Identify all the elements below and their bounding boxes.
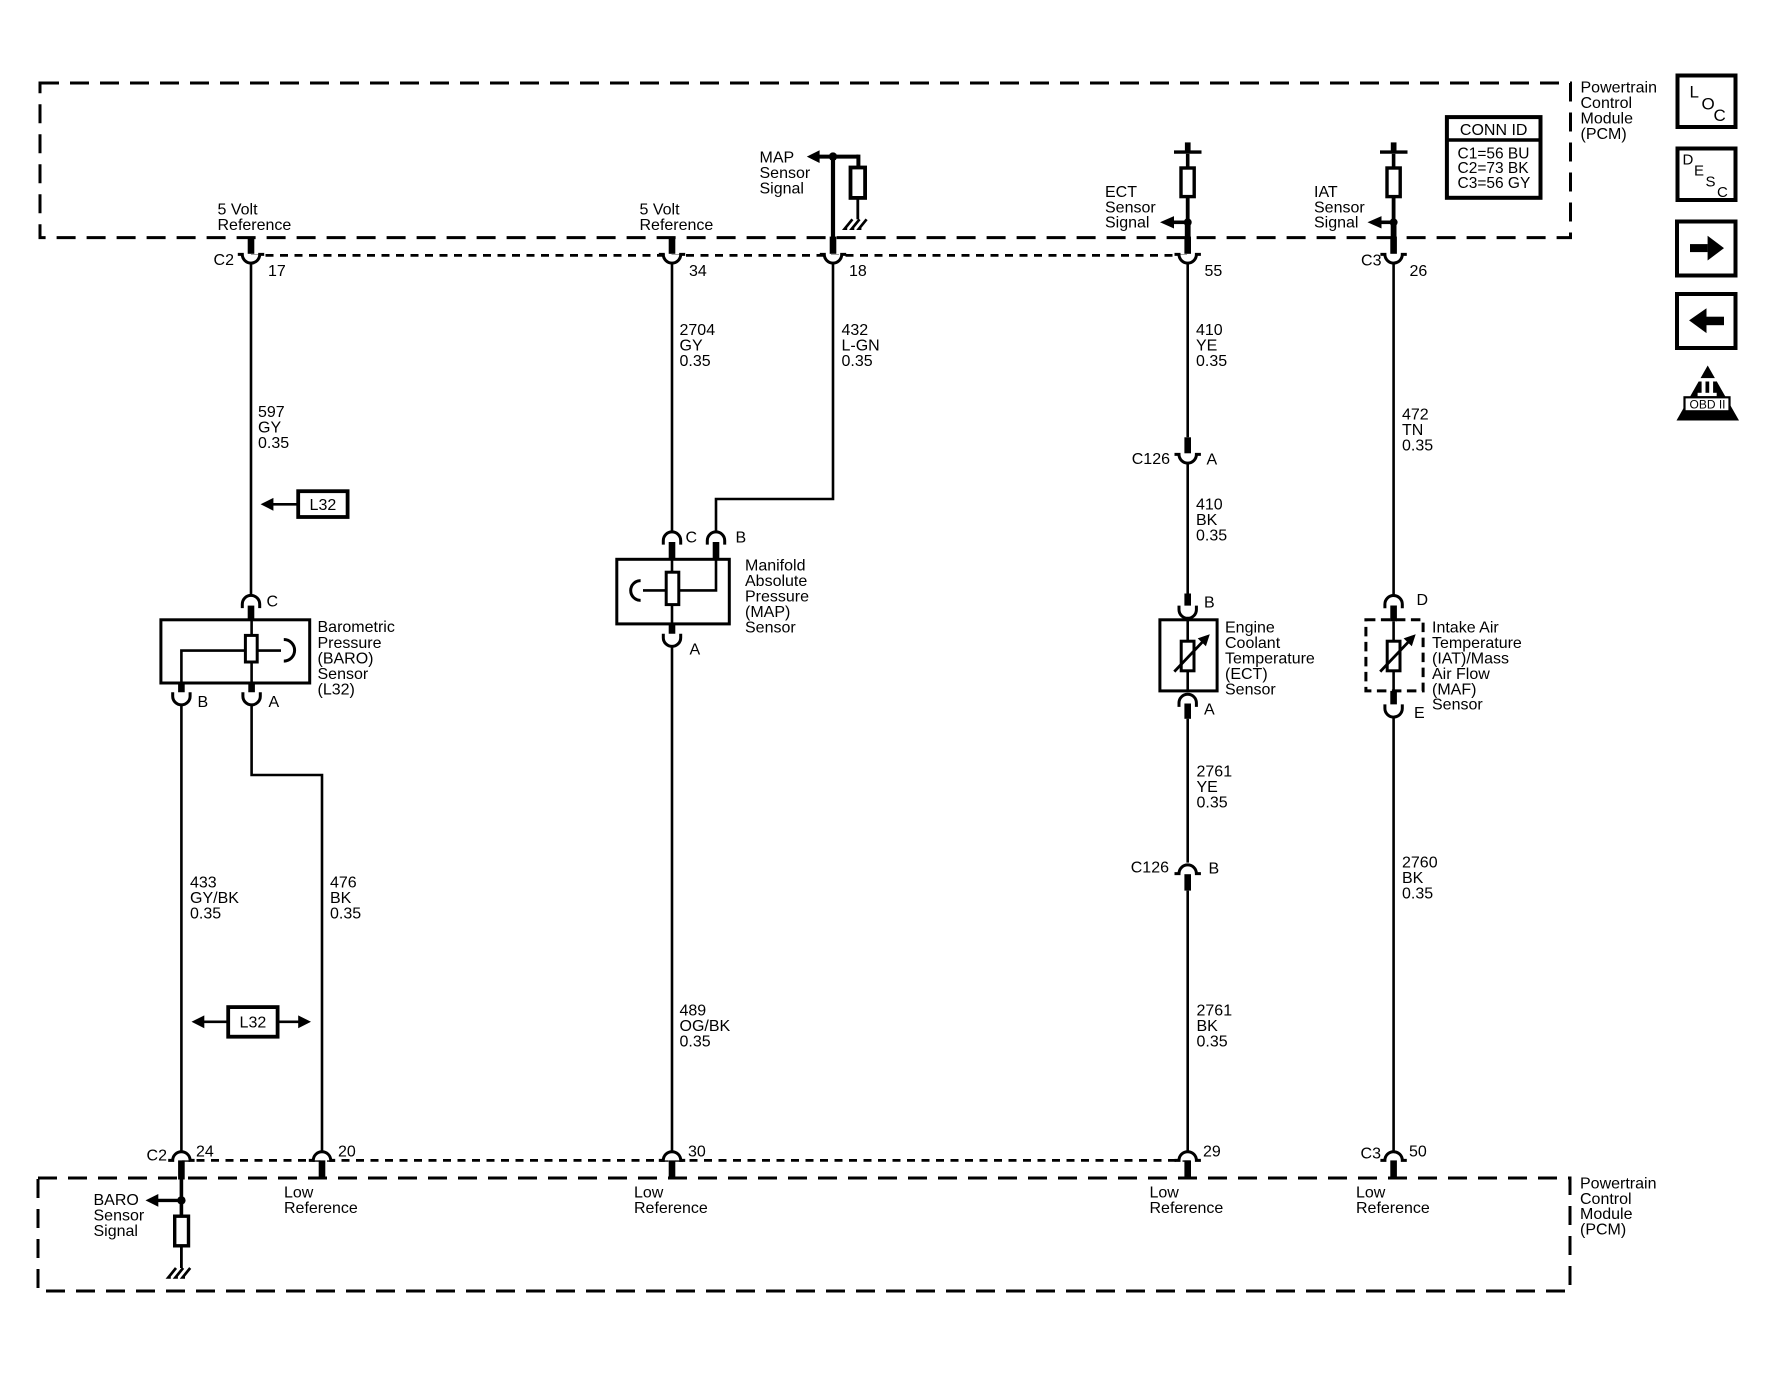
connector cup pin 30 (659, 1152, 685, 1161)
wire 410 YE (pin 55 to C126 A) (1186, 264, 1189, 438)
arrowhead MAP sensor signal (points left) (807, 150, 820, 163)
svg-text:24: 24 (196, 1144, 214, 1161)
resistor PCM IAT pull-up (1387, 168, 1400, 197)
connector cup pin 50 (1380, 1152, 1406, 1161)
connector cup BARO pin B (173, 692, 190, 705)
wire 433 GY/BK (BARO B to pin 24) (180, 705, 183, 1152)
icon forward arrow box (1677, 222, 1736, 276)
label Powertrain Control Module (PCM) top (1581, 80, 1657, 143)
svg-text:A: A (1204, 701, 1215, 718)
wire to PCM pull-up resistor (MAP) (856, 155, 860, 168)
connector face line C2 (bottom, dotted) (182, 1159, 1190, 1162)
pin stub PCM pin 29 (1184, 1160, 1191, 1179)
thermistor IAT (variable resistor) (1387, 641, 1400, 671)
svg-text:Signal: Signal (1105, 215, 1149, 232)
wire L32 callout right (278, 1020, 299, 1023)
wire 432 L-GN (pin 18 to MAP B) (716, 264, 833, 532)
connector cup BARO pin C (242, 595, 259, 608)
svg-text:L32: L32 (240, 1015, 267, 1032)
junction ECT signal node (1184, 218, 1192, 226)
intake air temperature / MAF sensor box (dashed) (1366, 620, 1423, 691)
pressure port symbol (MAP) (631, 581, 641, 601)
svg-text:0.35: 0.35 (842, 353, 873, 370)
wire ECT internal pin B to thermistor (1186, 619, 1189, 642)
arrowhead L32 callout (261, 498, 274, 511)
wire MAP internal pin B to resistor (679, 561, 716, 591)
label 5 Volt Reference (pin 34) (640, 202, 714, 234)
svg-text:0.35: 0.35 (190, 906, 221, 923)
svg-text:C: C (1717, 184, 1728, 201)
svg-text:55: 55 (1205, 263, 1223, 280)
wire label 410 BK 0.35 (1196, 497, 1227, 545)
pin stub PCM pin 55 (1184, 237, 1191, 254)
svg-text:L32: L32 (310, 497, 337, 514)
svg-text:17: 17 (268, 263, 286, 280)
connector cup MAP pin B (707, 532, 724, 545)
wire resistor to pin 26 (1392, 197, 1396, 238)
svg-text:C2: C2 (214, 252, 235, 269)
connector cup IAT pin D (1385, 596, 1402, 609)
wire 472 TN (pin 26 to IAT D) (1392, 264, 1395, 596)
svg-text:0.35: 0.35 (1196, 528, 1227, 545)
wire L32 callout left (204, 1020, 228, 1023)
svg-text:Signal: Signal (94, 1223, 138, 1240)
svg-text:Sensor: Sensor (318, 666, 369, 683)
svg-text:C126: C126 (1131, 860, 1169, 877)
T-bar supply (ECT branch) (1174, 142, 1202, 152)
pin stub MAP pin A (669, 624, 676, 636)
svg-text:0.35: 0.35 (258, 435, 289, 452)
svg-text:Reference: Reference (1150, 1200, 1224, 1217)
pin stub PCM pin 34 (669, 237, 676, 254)
svg-text:29: 29 (1203, 1144, 1221, 1161)
label 5 Volt Reference (pin 17) (218, 202, 292, 234)
wire IAT internal thermistor to pin E (1392, 671, 1395, 691)
wire resistor to ground (BARO) (180, 1246, 183, 1268)
svg-text:B: B (1204, 594, 1215, 611)
connector cup pin 34 (659, 254, 685, 263)
svg-text:C126: C126 (1132, 451, 1170, 468)
manifold absolute pressure sensor box (617, 559, 730, 624)
pin stub C126 pin A (1184, 437, 1191, 453)
wire T-bar to resistor (IAT) (1392, 154, 1396, 168)
wire IAT internal pin D to thermistor (1392, 621, 1395, 641)
svg-text:A: A (1207, 452, 1218, 469)
wire MAP signal horizontal (818, 155, 858, 159)
L32 callout box (298, 491, 347, 517)
pressure port symbol (BARO) (284, 640, 295, 662)
svg-text:B: B (198, 694, 209, 711)
icon OBD II triangle (1677, 366, 1740, 421)
svg-text:E: E (1694, 163, 1704, 180)
pin stub IAT pin D (1390, 606, 1397, 622)
wire 2760 BK (IAT E to pin 50) (1392, 717, 1395, 1152)
pin stub PCM pin 20 (319, 1160, 326, 1179)
wire 489 OG/BK (MAP A to pin 30) (671, 646, 674, 1152)
pin stub PCM pin 24 (178, 1160, 185, 1179)
svg-text:C: C (1714, 106, 1726, 125)
svg-text:B: B (1209, 861, 1220, 878)
svg-text:Reference: Reference (1356, 1200, 1430, 1217)
label IAT Sensor Signal (1314, 184, 1365, 232)
connector cup MAP pin A (663, 634, 680, 647)
connector cup pin 29 (1175, 1152, 1201, 1161)
wire label 489 OG/BK 0.35 (680, 1003, 731, 1051)
thermistor ECT (variable resistor) (1181, 641, 1194, 671)
ground (PCM internal, BARO branch) (168, 1268, 190, 1277)
pin stub IAT signal through PCM edge (1391, 225, 1397, 240)
pin stub ECT signal through PCM edge (1185, 225, 1191, 240)
wire 410 BK (C126 A to ECT B) (1186, 464, 1189, 594)
resistor PCM ECT pull-up (1181, 168, 1194, 197)
svg-text:50: 50 (1409, 1144, 1427, 1161)
wire IAT signal to arrow (1380, 221, 1394, 225)
connector cup pin 17 (238, 254, 264, 263)
label Intake Air Temperature (IAT)/Mass Air Flow (MAF) Sensor (1432, 620, 1522, 714)
wire MAP internal port to resistor (643, 589, 666, 592)
connector cup pin 26 (1380, 254, 1406, 263)
icon back arrow box (1677, 294, 1736, 348)
svg-text:CONN ID: CONN ID (1460, 122, 1528, 139)
barometric pressure sensor B52/L32 box (161, 620, 310, 683)
wire label 2761 YE 0.35 (1197, 764, 1233, 812)
svg-text:B: B (736, 529, 747, 546)
svg-text:S: S (1706, 173, 1716, 190)
svg-text:26: 26 (1410, 263, 1428, 280)
svg-text:Reference: Reference (640, 217, 714, 234)
svg-text:Reference: Reference (284, 1200, 358, 1217)
wire resistor to pin 55 (1186, 197, 1190, 238)
connector cup pin 55 (1175, 254, 1201, 263)
connector cup pin 18 (820, 254, 846, 263)
connector cup ECT pin A (1179, 694, 1196, 707)
variable-resistor arrow (IAT) (1380, 634, 1416, 671)
arrowhead IAT sensor signal (points left) (1368, 216, 1382, 228)
svg-text:0.35: 0.35 (680, 353, 711, 370)
label Low Reference (634, 1185, 708, 1217)
label Low Reference (1150, 1185, 1224, 1217)
svg-text:Reference: Reference (218, 217, 292, 234)
wire 476 BK (BARO A to pin 20) (252, 705, 322, 1152)
svg-text:E: E (1414, 705, 1425, 722)
wire label 2704 GY 0.35 (680, 322, 716, 370)
svg-text:Barometric: Barometric (318, 619, 395, 636)
svg-text:(L32): (L32) (318, 682, 355, 699)
L32 callout box (lower) (228, 1007, 277, 1037)
svg-text:0.35: 0.35 (1196, 353, 1227, 370)
wire MAP internal pin C to resistor (671, 561, 674, 573)
icon DESC box (1678, 149, 1736, 202)
svg-text:A: A (269, 694, 280, 711)
connector cup IAT pin E (1385, 704, 1402, 717)
svg-text:C3: C3 (1361, 252, 1382, 269)
PCM module box (bottom) (38, 1178, 1570, 1291)
wire label 2761 BK 0.35 (1197, 1003, 1233, 1051)
engine coolant temperature sensor box (1160, 620, 1217, 691)
wire BARO signal to arrow (158, 1199, 182, 1202)
svg-text:Sensor: Sensor (1432, 697, 1483, 714)
pin stub PCM pin 30 (669, 1160, 676, 1179)
arrowhead L32 callout left (points left) (192, 1015, 205, 1028)
wire 2761 YE (ECT A to C126 B) (1186, 719, 1189, 863)
svg-text:D: D (1683, 152, 1694, 169)
wire label 433 GY/BK 0.35 (190, 875, 239, 923)
svg-text:30: 30 (688, 1144, 706, 1161)
arrowhead L32 callout right (points right) (298, 1015, 311, 1028)
svg-text:C3=56 GY: C3=56 GY (1458, 175, 1531, 192)
connector cup ECT pin B (1179, 606, 1196, 619)
wire BARO internal resistor to pin B (181, 651, 245, 683)
connector cup pin 20 (309, 1152, 335, 1161)
svg-text:Pressure: Pressure (318, 635, 382, 652)
svg-text:18: 18 (849, 263, 867, 280)
svg-text:C3: C3 (1361, 1145, 1382, 1162)
labels C1=56 BU / C2=73 BK / C3=56 GY (1458, 145, 1531, 192)
svg-text:0.35: 0.35 (1197, 1034, 1228, 1051)
wire BARO internal resistor to port (257, 649, 281, 652)
wire T-bar to resistor (ECT) (1186, 154, 1190, 168)
svg-text:34: 34 (689, 263, 707, 280)
svg-text:0.35: 0.35 (330, 906, 361, 923)
wire 2761 BK (C126 B to pin 29) (1186, 891, 1189, 1152)
svg-text:(PCM): (PCM) (1580, 1222, 1626, 1239)
svg-text:D: D (1417, 592, 1429, 609)
connector cup pin 24 (168, 1152, 194, 1161)
variable-resistor arrow (ECT) (1174, 634, 1210, 671)
pin stub PCM pin 26 (1390, 237, 1397, 254)
resistor BARO sense element (245, 635, 257, 662)
ground (PCM internal, MAP branch) (845, 219, 867, 228)
pin stub MAP pin B (713, 542, 720, 561)
label MAP Sensor Signal (760, 150, 811, 198)
label Low Reference (284, 1185, 358, 1217)
label Barometric Pressure (BARO) Sensor (L32) (318, 619, 395, 698)
svg-text:OBD II: OBD II (1689, 397, 1725, 411)
pin stub BARO pin B (178, 683, 185, 695)
wire ECT internal thermistor to pin A (1186, 671, 1189, 691)
junction IAT signal node (1390, 218, 1398, 226)
svg-text:(BARO): (BARO) (318, 650, 374, 667)
pin stub PCM pin 17 (248, 237, 255, 254)
connector cup C126 pin B (1175, 865, 1201, 874)
svg-text:A: A (690, 642, 701, 659)
label Powertrain Control Module (PCM) bottom (1580, 1175, 1656, 1238)
wire label 432 L-GN 0.35 (842, 322, 880, 370)
svg-text:20: 20 (338, 1144, 356, 1161)
svg-text:(PCM): (PCM) (1581, 126, 1627, 143)
svg-text:Signal: Signal (760, 181, 804, 198)
wire MAP signal down to pin 18 (831, 157, 835, 238)
wire L32 callout (272, 503, 298, 506)
resistor PCM MAP pull-up (851, 168, 866, 198)
arrowhead ECT sensor signal (points left) (1160, 216, 1174, 228)
pin stub PCM pin 18 (830, 237, 837, 254)
pin stub BARO pin A (248, 683, 255, 695)
svg-text:0.35: 0.35 (1402, 886, 1433, 903)
svg-text:0.35: 0.35 (1402, 438, 1433, 455)
label Engine Coolant Temperature (ECT) Sensor (1225, 620, 1315, 699)
wire pin 24 to junction (PCM internal) (180, 1179, 184, 1216)
pin stub IAT pin E (1390, 691, 1397, 707)
CONN ID table (1447, 117, 1541, 198)
junction BARO signal node (177, 1196, 185, 1204)
T-bar supply (IAT branch) (1380, 142, 1408, 152)
label BARO Sensor Signal (94, 1192, 145, 1240)
wire label 410 YE 0.35 (1196, 322, 1227, 370)
wire 597 GY (pin 17 to BARO C) (250, 264, 253, 596)
label Low Reference (1356, 1185, 1430, 1217)
pin stub ECT pin B (1184, 594, 1191, 609)
PCM module box (top) (40, 83, 1571, 238)
svg-text:Signal: Signal (1314, 215, 1358, 232)
pin stub ECT pin A (1184, 704, 1191, 719)
label ECT Sensor Signal (1105, 184, 1156, 232)
svg-text:Reference: Reference (634, 1200, 708, 1217)
wire 2704 GY (pin 34 to MAP C) (671, 264, 674, 532)
wire label 597 GY 0.35 (258, 404, 289, 452)
arrowhead BARO sensor signal (points left) (146, 1194, 159, 1207)
label Manifold Absolute Pressure (MAP) Sensor (745, 558, 809, 637)
svg-text:C: C (686, 529, 698, 546)
wire MAP internal resistor to pin A (671, 605, 674, 624)
connector cup MAP pin C (663, 532, 680, 545)
pin stub MAP pin C (669, 542, 676, 561)
pin stub PCM pin 50 (1390, 1160, 1397, 1179)
wire ECT signal to arrow (1172, 221, 1188, 225)
connector face line C2 (top, dotted) (251, 254, 1190, 257)
connector cup BARO pin A (243, 692, 260, 705)
svg-text:Sensor: Sensor (745, 619, 796, 636)
wire BARO internal resistor to pin A (250, 662, 253, 683)
resistor MAP sense element (666, 572, 679, 604)
svg-text:0.35: 0.35 (680, 1034, 711, 1051)
wire label 2760 BK 0.35 (1402, 855, 1438, 903)
wire BARO internal pin C to resistor (250, 621, 253, 635)
svg-text:L: L (1690, 82, 1699, 101)
icon LOC box (1678, 76, 1736, 128)
wire label 472 TN 0.35 (1402, 407, 1433, 455)
pin stub BARO pin C (248, 606, 255, 622)
svg-text:0.35: 0.35 (1197, 795, 1228, 812)
svg-text:C: C (267, 594, 279, 611)
connector cup C126 pin A (1175, 454, 1201, 463)
wire resistor to ground (MAP) (856, 198, 859, 219)
svg-text:C2: C2 (147, 1148, 168, 1165)
resistor PCM BARO pull-up (175, 1216, 189, 1246)
svg-text:Sensor: Sensor (1225, 681, 1276, 698)
wire label 476 BK 0.35 (330, 875, 361, 923)
junction MAP signal node (829, 152, 837, 160)
pin stub C126 pin B (1184, 874, 1191, 890)
